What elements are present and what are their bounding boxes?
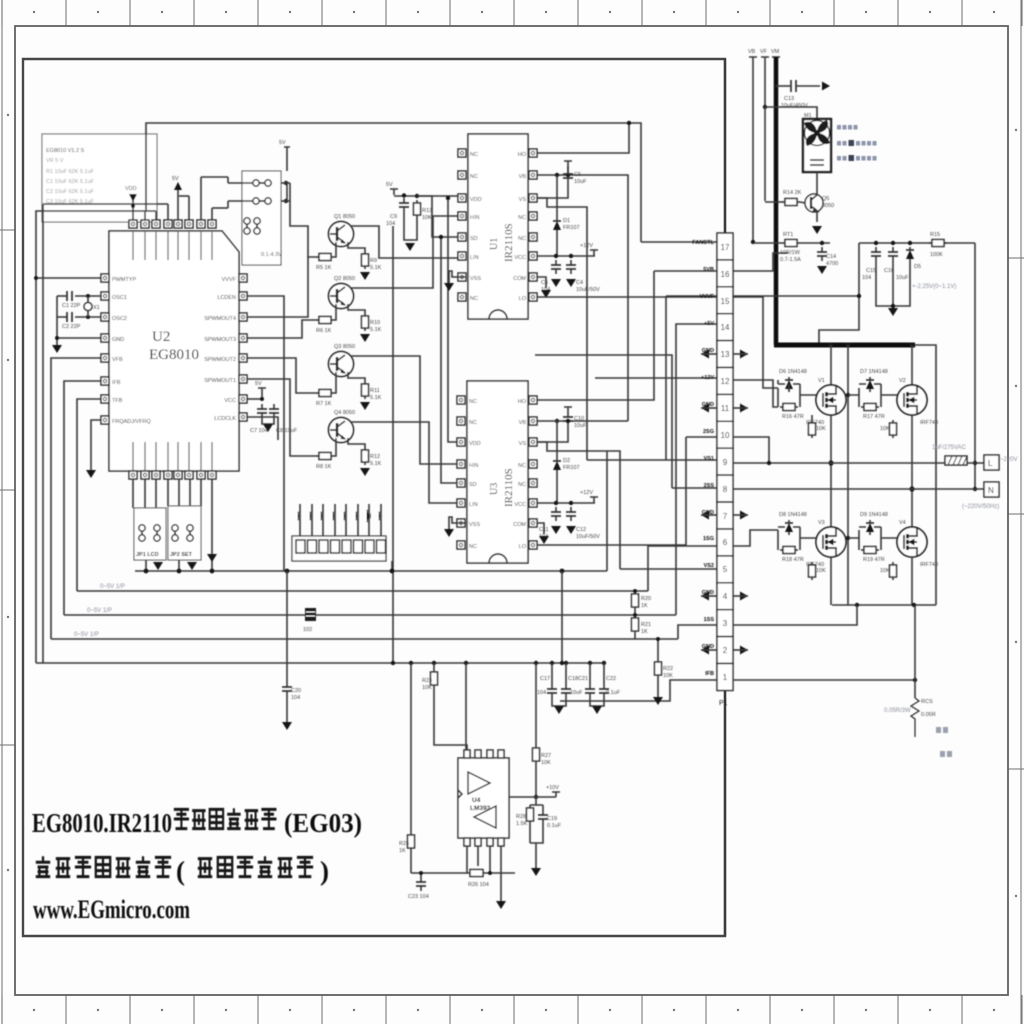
thick VMOS bus horizontal — [774, 343, 915, 348]
svg-text:10K: 10K — [880, 568, 890, 574]
shunt RCS — [733, 605, 952, 757]
V2 pulldown — [880, 420, 897, 438]
net stub VB — [748, 49, 757, 244]
svg-text:LIN: LIN — [470, 255, 479, 261]
U2 bottom pins — [129, 442, 216, 479]
VFB col51 down to bus3 — [51, 358, 101, 639]
svg-text:10K: 10K — [816, 426, 826, 432]
jumper block JP2 — [168, 506, 201, 560]
transistor Q3 8050 — [316, 344, 459, 464]
col607 rail571 up — [606, 451, 608, 571]
svg-text:N: N — [988, 486, 994, 495]
svg-text:GND: GND — [112, 337, 124, 343]
svg-text:5V: 5V — [279, 140, 286, 146]
U4 bottom wires — [467, 846, 506, 909]
svg-text:OSC2: OSC2 — [112, 316, 127, 322]
svg-text:~220V: ~220V — [1000, 457, 1018, 463]
pin15 wire to sense col859 — [733, 295, 859, 297]
svg-text:C2 10uF 62K 5.1uF: C2 10uF 62K 5.1uF — [46, 189, 95, 195]
jumper box JP0 — [228, 140, 290, 265]
transistor Q1 8050 — [316, 214, 459, 280]
svg-text:D7 1N4148: D7 1N4148 — [860, 369, 888, 375]
5V stub RC for SD — [386, 182, 459, 251]
rail 5V — [36, 662, 604, 664]
U2 left pins — [101, 274, 152, 425]
U1 VCC node — [537, 243, 600, 293]
svg-text:104: 104 — [862, 275, 871, 281]
svg-text:C5: C5 — [574, 172, 581, 178]
svg-text:100K: 100K — [930, 252, 943, 258]
svg-text:IFB: IFB — [112, 380, 121, 386]
svg-text:D9 1N4148: D9 1N4148 — [860, 512, 888, 518]
U2 EG8010 — [109, 231, 239, 471]
bus3 TFB — [51, 638, 678, 640]
svg-text:102: 102 — [303, 627, 312, 633]
svg-text:VSS: VSS — [470, 276, 481, 282]
svg-text:16: 16 — [721, 270, 730, 279]
svg-text:R20: R20 — [641, 596, 651, 602]
svg-text:104: 104 — [386, 221, 395, 227]
svg-text:2: 2 — [723, 646, 728, 655]
bottom ruler — [1, 995, 3, 1024]
source rail — [832, 604, 936, 606]
U1 VB wire + col628 — [537, 175, 628, 421]
cap C23 — [408, 871, 429, 900]
svg-text:IR2110S: IR2110S — [503, 223, 515, 262]
svg-text:HIN: HIN — [470, 215, 480, 221]
svg-text:0.7-1.5A: 0.7-1.5A — [780, 257, 801, 263]
fan note text — [837, 125, 877, 161]
U1 IR2110S — [458, 134, 537, 319]
svg-text:VR 5 V: VR 5 V — [46, 158, 64, 164]
svg-text:14: 14 — [721, 323, 730, 332]
svg-text:V1: V1 — [818, 378, 825, 384]
svg-text:RT1: RT1 — [783, 232, 793, 238]
svg-text:0.1-4.3V: 0.1-4.3V — [261, 252, 282, 258]
SPWMOUT4 wire to Q1 — [247, 257, 316, 317]
svg-text:PWMTYP: PWMTYP — [112, 277, 136, 283]
svg-text:LO: LO — [519, 544, 527, 550]
12V to fan wire — [765, 107, 817, 119]
svg-text:C4: C4 — [576, 280, 583, 286]
svg-text:VS: VS — [519, 197, 527, 203]
svg-text:+12V: +12V — [701, 375, 714, 381]
svg-text:D1: D1 — [563, 218, 570, 224]
svg-text:6: 6 — [723, 538, 728, 547]
fan FAN1 — [803, 113, 831, 172]
FRQADJ col91 w/ gnd — [86, 420, 101, 478]
svg-text:C1 10uF 62K 5.1uF: C1 10uF 62K 5.1uF — [46, 179, 95, 185]
svg-text:0.05R: 0.05R — [921, 712, 936, 718]
N output line — [733, 488, 984, 490]
svg-text:R11: R11 — [370, 388, 380, 394]
svg-text:NC: NC — [469, 544, 477, 550]
svg-text:C17: C17 — [540, 676, 550, 682]
col648 bus1 up to pin6 — [648, 546, 717, 591]
svg-text:VB: VB — [519, 420, 527, 426]
decoupling caps group2 — [578, 661, 621, 714]
decoupling caps group1 — [537, 661, 583, 714]
svg-text:IRF740: IRF740 — [920, 420, 938, 426]
gnd column left of U2 — [52, 296, 101, 353]
svg-text:10: 10 — [721, 431, 730, 440]
bootstrap C5 — [537, 161, 587, 198]
terminal N — [962, 482, 999, 510]
svg-text:NC: NC — [469, 420, 477, 426]
R22 off bus3 to gnd — [653, 637, 673, 705]
svg-text:C8 10uF: C8 10uF — [276, 428, 298, 434]
EMI inductor L1 — [932, 445, 967, 465]
svg-text:FR107: FR107 — [563, 225, 580, 231]
rail 571 — [135, 570, 607, 572]
svg-text:VSS: VSS — [469, 522, 480, 528]
U3 COM gnd — [537, 523, 544, 534]
svg-text:SPWMOUT2: SPWMOUT2 — [204, 357, 236, 363]
svg-text:5V: 5V — [386, 182, 393, 188]
U2 VCC decoupling — [247, 381, 298, 434]
svg-text:11: 11 — [721, 404, 730, 413]
svg-text:D5: D5 — [914, 264, 921, 270]
svg-text:R13: R13 — [422, 208, 432, 214]
svg-text:FRQADJ/VFRQ: FRQADJ/VFRQ — [112, 419, 152, 425]
svg-text:L: L — [988, 459, 993, 468]
svg-text:10uF/50V: 10uF/50V — [576, 287, 600, 293]
svg-text:3: 3 — [723, 619, 728, 628]
top wire net y=123 long — [146, 123, 641, 242]
svg-text:9: 9 — [723, 458, 728, 467]
svg-text:R22: R22 — [663, 666, 673, 672]
svg-text:R1 10uF 62K 5.1uF: R1 10uF 62K 5.1uF — [46, 169, 95, 175]
svg-text:C15: C15 — [866, 268, 876, 274]
terminal L — [984, 455, 1018, 470]
svg-text:(~220V/50Hz): (~220V/50Hz) — [962, 504, 999, 510]
svg-text:12: 12 — [721, 377, 730, 386]
wire VVVF to P1 pin15 — [666, 295, 717, 297]
svg-text:R27: R27 — [541, 753, 551, 759]
SPWMOUT3 wire to Q2 — [247, 320, 316, 338]
svg-text:Q2 8050: Q2 8050 — [334, 276, 355, 282]
svg-text:10uF: 10uF — [570, 690, 583, 696]
svg-text:NC: NC — [470, 152, 478, 158]
col536 R24 divider — [509, 663, 560, 799]
svg-text:C7 104: C7 104 — [250, 428, 268, 434]
left ruler — [1, 0, 3, 1024]
col562 — [561, 571, 563, 663]
svg-text:R14 2K: R14 2K — [783, 190, 802, 196]
svg-text:EG8010 V1.2 S: EG8010 V1.2 S — [46, 148, 85, 154]
svg-text:VCC: VCC — [514, 255, 526, 261]
svg-text:17: 17 — [721, 243, 730, 252]
svg-text:1K: 1K — [399, 848, 406, 854]
svg-text:0~5V 1/P: 0~5V 1/P — [100, 584, 125, 590]
svg-text:C2 22P: C2 22P — [62, 324, 81, 330]
svg-text:15: 15 — [721, 297, 730, 306]
svg-text:C16: C16 — [884, 268, 894, 274]
OSC2 cap C2 — [57, 312, 101, 330]
R20 between bus1 bus2 — [632, 589, 652, 615]
col678 bus3 up to pin3 — [678, 625, 717, 639]
svg-text:R15: R15 — [930, 232, 940, 238]
svg-text:D2: D2 — [563, 458, 570, 464]
svg-text:R7 1K: R7 1K — [316, 401, 332, 407]
5V rail down col393 — [392, 226, 394, 663]
svg-text:U2: U2 — [152, 329, 170, 345]
svg-text:R9: R9 — [370, 258, 377, 264]
svg-text:VFB: VFB — [112, 357, 123, 363]
col653 HO2 route — [535, 355, 672, 488]
cap C14 — [817, 241, 838, 274]
svg-text:LO: LO — [519, 296, 527, 302]
svg-text:R26 104: R26 104 — [468, 882, 489, 888]
svg-text:C21: C21 — [578, 676, 588, 682]
svg-text:VCC: VCC — [514, 502, 526, 508]
wire FANCTL to P1 pin17 — [641, 241, 717, 243]
svg-text:C12: C12 — [576, 527, 586, 533]
svg-text:C20: C20 — [291, 688, 301, 694]
U3 VS sense to pin5 — [537, 442, 620, 569]
col287 cap C20 — [282, 571, 301, 730]
svg-text:1K: 1K — [641, 629, 648, 635]
U3 LO wire to col686 — [537, 437, 686, 545]
svg-text:Q4 8050: Q4 8050 — [334, 410, 355, 416]
svg-text:EG8010: EG8010 — [149, 347, 199, 363]
SD wire — [417, 196, 459, 237]
col441 SD feed U3 — [441, 237, 459, 483]
right ruler — [1020, 0, 1022, 1024]
R28/C19 parallel to gnd — [516, 797, 562, 876]
output RC filter — [859, 232, 977, 491]
U3 HO wire to col654 — [537, 271, 654, 400]
svg-text:R8 1K: R8 1K — [316, 464, 332, 470]
svg-text:1SS: 1SS — [704, 617, 715, 623]
col676 bus2 up to pin14 — [676, 324, 717, 615]
OSC1 cap C1 — [57, 291, 101, 309]
MOSFET V4 — [897, 486, 938, 605]
svg-text:SPWMOUT4: SPWMOUT4 — [204, 316, 236, 322]
U3 VCC node — [537, 490, 600, 540]
svg-text:C14: C14 — [826, 254, 836, 260]
svg-text:V2: V2 — [899, 378, 906, 384]
col448 VDD feed U3 — [448, 198, 459, 442]
wire VS1 to P1 pin9 — [587, 459, 717, 461]
svg-text:0~5V 1/P: 0~5V 1/P — [87, 608, 112, 614]
svg-text:U4: U4 — [472, 797, 481, 804]
svg-text:10K: 10K — [663, 673, 673, 679]
svg-text:EG8010.IR2110: EG8010.IR2110 — [32, 808, 172, 838]
V3 gate network D8/R — [778, 512, 816, 563]
svg-text:VDD: VDD — [125, 186, 137, 192]
PWMTYP wire to 5V bus col36 — [36, 211, 145, 663]
svg-text:8: 8 — [723, 485, 728, 494]
svg-text:10uF: 10uF — [574, 179, 587, 185]
svg-text:C22: C22 — [606, 676, 616, 682]
svg-text:JP2 SET: JP2 SET — [170, 552, 193, 558]
title block text — [32, 808, 362, 924]
svg-text:10K: 10K — [880, 426, 890, 432]
svg-text:SPWMOUT3: SPWMOUT3 — [204, 337, 236, 343]
pin16 stub wire — [733, 253, 788, 271]
svg-text:5VB: 5VB — [703, 267, 714, 273]
U2 bottom pin drops — [133, 479, 212, 571]
U4 LM393 — [458, 750, 509, 846]
12V rail y=243 left — [753, 232, 830, 263]
svg-text:VB: VB — [519, 174, 527, 180]
svg-text:C13: C13 — [784, 96, 794, 102]
svg-text:VVVF: VVVF — [222, 277, 237, 283]
transistor Q4 8050 — [316, 410, 459, 503]
col411 left branch — [399, 663, 415, 873]
wire 5VB to P1 pin16 — [654, 270, 717, 272]
svg-text:5.1K: 5.1K — [370, 327, 382, 333]
svg-text:LIN: LIN — [469, 502, 478, 508]
note box — [42, 134, 157, 222]
svg-text:0.05R/3W: 0.05R/3W — [884, 708, 911, 714]
net stub +12V — [760, 49, 769, 201]
svg-text:NC: NC — [518, 215, 526, 221]
svg-text:NC: NC — [469, 399, 477, 405]
svg-text:104: 104 — [291, 695, 300, 701]
svg-text:(: ( — [176, 856, 185, 886]
svg-text:V3: V3 — [818, 520, 825, 526]
svg-text:U3: U3 — [489, 483, 500, 495]
svg-text:+10V: +10V — [546, 785, 559, 791]
svg-text:5.1K: 5.1K — [370, 265, 382, 271]
svg-text:R10: R10 — [370, 320, 380, 326]
wire 2SS to P1 pin8 — [672, 487, 717, 489]
svg-text:NC: NC — [518, 236, 526, 242]
MOSFET V1 — [806, 345, 846, 463]
NTC blob on bus2 — [303, 608, 316, 633]
U1 VS sense col587 — [537, 198, 587, 460]
svg-text:4: 4 — [723, 592, 728, 601]
svg-text:OSC1: OSC1 — [112, 295, 127, 301]
jumper block JP1 — [134, 508, 166, 560]
top pin stubs — [43, 177, 228, 220]
bus2 IFB — [64, 614, 676, 616]
U1 COM gnd — [537, 277, 546, 288]
svg-text:VS1: VS1 — [704, 456, 714, 462]
svg-text:V4: V4 — [899, 520, 906, 526]
svg-text:VS: VS — [519, 441, 527, 447]
U3 VSS hook gnd — [449, 517, 466, 529]
gnd rail under U4 — [411, 870, 515, 889]
thick VMOS bus vertical — [771, 49, 780, 345]
pin3 wire — [733, 605, 857, 625]
cap C13 on VMOS — [774, 80, 830, 109]
svg-text:10uF: 10uF — [574, 423, 587, 429]
svg-text:FANCTL: FANCTL — [692, 240, 714, 246]
svg-text:+5V: +5V — [704, 321, 714, 327]
svg-text:5.1K: 5.1K — [370, 461, 382, 467]
col43 long vertical — [42, 204, 44, 663]
svg-text:VB: VB — [748, 49, 756, 55]
pin12 gate wire — [733, 380, 778, 407]
svg-text:Q3 8050: Q3 8050 — [334, 344, 355, 350]
svg-text:U1: U1 — [489, 238, 500, 250]
svg-text:X1: X1 — [93, 305, 100, 311]
svg-text:5V: 5V — [255, 381, 262, 387]
pin1 wire — [560, 680, 717, 701]
col466 — [465, 663, 467, 750]
DIP switch S1 — [292, 504, 392, 571]
transistor Q2 8050 — [316, 216, 459, 342]
V4 gate network D9/R — [848, 512, 897, 563]
V3 pulldown — [809, 562, 827, 580]
bootstrap D2 — [553, 419, 580, 503]
svg-text:R17 47R: R17 47R — [863, 414, 885, 420]
svg-text:2SG: 2SG — [703, 429, 714, 435]
svg-text:M1: M1 — [804, 113, 812, 119]
U2 right pins — [204, 274, 247, 422]
svg-text:IR2110S: IR2110S — [503, 468, 515, 507]
connector gnd arrows pins 13,11,7,4,2 — [701, 350, 748, 655]
JP gnd arrows — [153, 562, 163, 570]
svg-text:10K: 10K — [422, 685, 432, 691]
svg-text:VDD: VDD — [469, 441, 481, 447]
V2 gate network D7/R — [848, 369, 897, 420]
U2 top pins — [129, 220, 216, 260]
svg-text:10R/1W: 10R/1W — [780, 250, 801, 256]
pin6 gate wire to V3 — [733, 530, 778, 546]
svg-text:+-2.25V(0~1.1V): +-2.25V(0~1.1V) — [912, 284, 956, 290]
svg-text:C19: C19 — [547, 816, 557, 822]
svg-text:R28: R28 — [516, 814, 526, 820]
svg-text:5.1K: 5.1K — [370, 395, 382, 401]
svg-text:Q1 8050: Q1 8050 — [334, 214, 355, 220]
svg-text:4700: 4700 — [826, 261, 838, 267]
fan base resistor R14 — [765, 190, 805, 206]
svg-text:IFB: IFB — [705, 671, 714, 677]
svg-text:R23: R23 — [422, 678, 432, 684]
svg-text:FR107: FR107 — [563, 465, 580, 471]
svg-text:C9: C9 — [390, 214, 397, 220]
svg-text:C23 104: C23 104 — [408, 894, 429, 900]
svg-text:VS2: VS2 — [704, 563, 714, 569]
svg-text:5V: 5V — [172, 176, 179, 182]
col859 — [817, 243, 861, 347]
svg-text:JP1 LCD: JP1 LCD — [136, 552, 159, 558]
svg-text:10K: 10K — [541, 760, 551, 766]
svg-text:HIN: HIN — [469, 463, 479, 469]
svg-text:): ) — [320, 856, 329, 886]
svg-text:SD: SD — [469, 482, 477, 488]
svg-text:COM: COM — [513, 276, 526, 282]
V4 pulldown — [880, 562, 897, 580]
U3 IR2110S — [457, 381, 537, 563]
svg-text:C1 22P: C1 22P — [62, 303, 81, 309]
svg-text:1K: 1K — [641, 603, 648, 609]
svg-text:1uF/275VAC: 1uF/275VAC — [932, 445, 967, 451]
svg-text:10K: 10K — [816, 568, 826, 574]
svg-text:R12: R12 — [370, 454, 380, 460]
bus1 VFB — [77, 590, 648, 592]
svg-text:LCDEN: LCDEN — [217, 295, 236, 301]
svg-text:RCS: RCS — [921, 699, 933, 705]
svg-text:R19 47R: R19 47R — [863, 557, 885, 563]
riser x290 from jumpers down — [290, 183, 308, 257]
SPWMOUT2 wire to Q3 — [247, 358, 316, 393]
svg-text:VCC: VCC — [224, 398, 236, 404]
svg-text:8050: 8050 — [822, 203, 834, 209]
crystal X1 — [84, 296, 100, 317]
U1 VSS hook gnd — [449, 271, 466, 283]
svg-text:1: 1 — [723, 673, 728, 682]
connector P1 — [692, 59, 748, 936]
svg-text:LM393: LM393 — [470, 805, 491, 812]
svg-text:COM: COM — [513, 522, 526, 528]
wire 2SG to P1 pin10 — [686, 436, 717, 438]
svg-text:0.1uF: 0.1uF — [547, 823, 562, 829]
